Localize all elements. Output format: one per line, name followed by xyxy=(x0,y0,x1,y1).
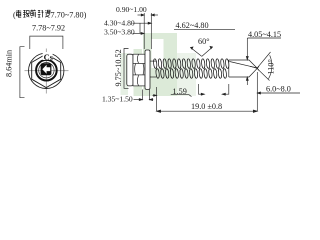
svg-text:1.35~1.50: 1.35~1.50 xyxy=(102,95,133,104)
110 degree annotation xyxy=(257,52,272,81)
svg-text:110°: 110° xyxy=(267,59,276,74)
fake CJK glyphs 電鍍前對邊 xyxy=(16,10,50,18)
前 xyxy=(31,10,36,18)
svg-text:8.64min: 8.64min xyxy=(5,50,14,77)
svg-text:60°: 60° xyxy=(198,37,209,46)
watermark logo xyxy=(121,33,197,96)
head top face xyxy=(127,54,133,86)
鍍 xyxy=(23,10,29,17)
logo arrow box xyxy=(41,63,52,75)
plain shank xyxy=(150,61,156,77)
centerlines front view xyxy=(25,49,69,94)
svg-text:7.70~7.80): 7.70~7.80) xyxy=(51,11,87,20)
邊 xyxy=(45,10,50,17)
對 xyxy=(38,10,44,17)
svg-text:4.62~4.80: 4.62~4.80 xyxy=(176,21,209,30)
hexagon front view xyxy=(32,54,61,88)
Cs label xyxy=(43,52,53,60)
svg-text:7.78~7.92: 7.78~7.92 xyxy=(32,24,65,33)
threads xyxy=(153,59,229,79)
電 xyxy=(16,10,21,17)
svg-text:19.0 ±0.8: 19.0 ±0.8 xyxy=(191,102,222,111)
svg-text:Cs: Cs xyxy=(44,53,54,62)
bold inner circle xyxy=(36,60,57,81)
drill flute xyxy=(229,60,259,77)
bottom hooks xyxy=(199,84,229,95)
svg-text:4.30~4.80: 4.30~4.80 xyxy=(104,19,135,28)
svg-text:9.75~10.52: 9.75~10.52 xyxy=(114,49,123,86)
svg-text:3.50~3.80: 3.50~3.80 xyxy=(104,28,135,37)
svg-text:4.05~4.15: 4.05~4.15 xyxy=(248,30,281,39)
svg-text:0.90~1.00: 0.90~1.00 xyxy=(116,5,147,14)
dim bracket 7.78 xyxy=(30,36,63,49)
dim bracket 8.64 xyxy=(20,47,25,98)
svg-text:6.0~8.0: 6.0~8.0 xyxy=(266,84,291,93)
washer side xyxy=(145,50,150,89)
svg-text:(: ( xyxy=(13,11,16,20)
washer circle front view xyxy=(29,53,64,88)
hex side xyxy=(133,54,145,86)
